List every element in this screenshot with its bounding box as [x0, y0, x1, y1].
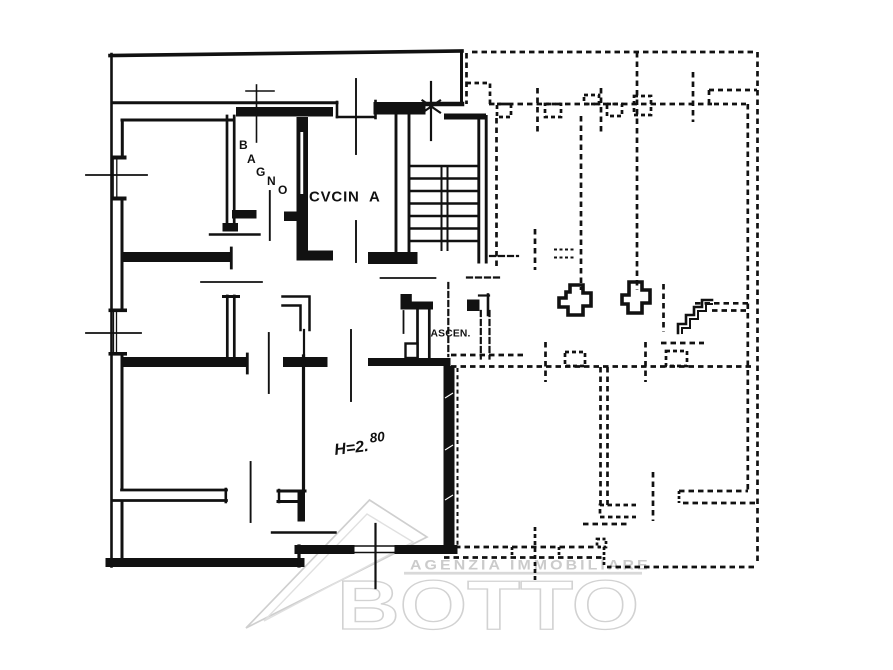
interior wall outer line — [112, 101, 337, 104]
window sill 2a — [109, 309, 128, 313]
stairwell right wall — [479, 117, 486, 263]
entrance dashed box — [467, 83, 491, 104]
elevator cap nub — [401, 294, 412, 302]
wall to right corner — [425, 102, 462, 107]
window tick 1 — [86, 174, 147, 176]
bump 5 up — [634, 96, 651, 115]
cross x545 row — [544, 342, 547, 382]
dashes y524 — [583, 523, 628, 526]
room2 right wall — [227, 296, 234, 362]
dashes y303 — [695, 302, 748, 305]
hook bottom — [600, 505, 636, 517]
right wall bottom double a — [679, 490, 748, 493]
bottom wall left — [110, 558, 300, 567]
window glazing left 2 — [114, 312, 117, 352]
dip vertical a — [336, 102, 339, 117]
stair arrow X — [423, 101, 441, 113]
bottom wall right seg B — [399, 545, 453, 554]
corridor wall cap — [230, 248, 233, 268]
elevator stem — [418, 310, 430, 359]
svg-text:N: N — [267, 174, 276, 188]
dashed right boundary — [756, 52, 759, 563]
dashed v left of ascen — [447, 283, 449, 356]
interior wall inner line room1 — [122, 119, 232, 122]
dashed top wall row — [489, 103, 712, 106]
window sill 1a — [111, 156, 127, 160]
cucina left wall — [297, 117, 309, 260]
agenzia underline — [404, 572, 642, 575]
bottom wall step — [297, 546, 300, 566]
corridor wall y362 seg1 — [121, 357, 248, 367]
bagno door line — [269, 191, 271, 240]
room3 wall cap — [225, 489, 228, 502]
corridor vertical wall thin top — [303, 330, 305, 356]
right outer wall top — [460, 51, 463, 104]
dashed line beside heavy wall — [457, 368, 459, 545]
row bump 2 — [666, 351, 687, 366]
elevator cap — [401, 302, 434, 310]
room3 wall outline top — [122, 489, 227, 492]
c-cap — [678, 491, 681, 503]
dashed bottom right — [607, 566, 754, 569]
window glazing left 1 — [113, 159, 117, 197]
corridor wall y362 cap — [246, 354, 249, 373]
bracket left cap — [278, 490, 281, 502]
cross x645 row — [644, 342, 647, 382]
bracket bottom line — [278, 500, 297, 503]
jog c — [603, 547, 606, 566]
right hook vertical — [487, 295, 490, 316]
logo triangle outer — [246, 500, 427, 628]
divider bottom cap — [223, 223, 239, 232]
vertical x637 — [636, 52, 639, 290]
stairwell foot — [368, 252, 418, 264]
dashes y310 — [712, 309, 748, 312]
corner hook wall — [283, 297, 310, 331]
stringer — [442, 166, 448, 250]
bagno nub on cucina wall — [284, 212, 297, 222]
svg-text:ASCEN.: ASCEN. — [431, 329, 471, 340]
bagno window tick — [246, 90, 274, 92]
double vertical x607 — [606, 367, 609, 505]
dashed v shaft a — [480, 311, 482, 359]
wire top outer wall — [110, 51, 462, 56]
zigzag stair neighbour upper — [678, 300, 712, 333]
dashed vertical right of stairwell — [495, 118, 498, 268]
cucina wall corner to right — [297, 251, 334, 261]
bagno bottom thin line — [210, 233, 260, 235]
thin line y532 — [272, 531, 336, 533]
corridor wall y254 — [121, 252, 231, 262]
jog a — [511, 547, 514, 557]
bottom double wall upper — [455, 546, 600, 549]
H=2.80 — [333, 429, 388, 459]
door header thin — [201, 281, 262, 283]
corridor wall y362 seg2 — [283, 357, 328, 367]
hatched heavy wall — [444, 366, 455, 553]
bracket top line — [278, 490, 305, 493]
bagno top thick band — [236, 107, 333, 117]
divider nub — [232, 210, 257, 219]
elevator door box — [406, 344, 418, 359]
bump 2 — [545, 104, 561, 117]
stair arrow line — [430, 82, 432, 140]
vertical x535 mid — [534, 229, 537, 270]
vertical x663 — [662, 284, 665, 332]
bottom wall window thin lines — [350, 546, 399, 553]
agenzia text — [410, 559, 651, 574]
svg-text:A: A — [369, 189, 380, 206]
dashed v shaft b — [488, 311, 490, 359]
svg-text:CVCIN: CVCIN — [309, 189, 360, 206]
double vertical x600 — [599, 367, 602, 505]
svg-text:80: 80 — [369, 429, 386, 446]
dashed top boundary — [472, 51, 757, 54]
botto text — [337, 566, 639, 644]
room2 wall cap — [224, 295, 239, 298]
vertical x601 — [600, 88, 603, 133]
dashed right inner — [746, 104, 749, 491]
svg-text:G: G — [256, 165, 265, 179]
cucina left wall white streak — [300, 132, 303, 194]
bump up near 600 — [597, 539, 606, 547]
blob fixture 2 — [622, 282, 650, 313]
bump 1 — [497, 104, 511, 117]
bottom double wall lower — [444, 556, 604, 559]
corridor vertical wall — [302, 356, 305, 491]
door line b — [350, 330, 352, 401]
room1-bagno divider wall — [227, 116, 234, 227]
stairwell left wall — [396, 114, 409, 254]
bottom window cross — [374, 524, 376, 588]
elevator left jamb — [403, 311, 405, 333]
cucina door line bottom — [355, 221, 357, 262]
row bump 1 — [565, 352, 585, 366]
window sill 1b — [111, 197, 127, 201]
dashed beside right top wall — [465, 53, 468, 104]
right hook horizontal — [479, 294, 489, 296]
vertical x537 — [536, 88, 539, 133]
svg-text:A: A — [247, 152, 256, 166]
svg-text:BOTTO: BOTTO — [337, 566, 639, 644]
equal ticks — [554, 250, 576, 258]
vertical x693 — [692, 72, 695, 122]
window sill 2b — [109, 352, 128, 356]
door line c — [250, 462, 252, 522]
dashes right of foot — [490, 255, 518, 257]
landing bottom wall — [368, 358, 451, 366]
window tick 2 — [86, 332, 141, 334]
bracket vertical block — [298, 490, 306, 522]
door line a — [268, 333, 270, 393]
landing row upper — [451, 354, 524, 357]
right hook bar — [467, 300, 480, 312]
wall seg y116 — [444, 114, 486, 120]
stair top cap — [374, 102, 426, 115]
vertical x581 — [580, 116, 583, 290]
wire left wall inner line — [121, 120, 124, 557]
treads — [411, 166, 477, 241]
right wall bottom double b — [683, 502, 756, 505]
vertical x653 — [652, 472, 655, 521]
room3 wall outline bottom — [112, 499, 227, 502]
jog b — [558, 547, 561, 557]
hatch white slashes — [445, 393, 453, 500]
bump 4 — [607, 104, 622, 116]
bottom wall right seg A — [299, 545, 350, 554]
window cross x535 — [534, 527, 537, 582]
double seg top right y90 — [709, 90, 757, 104]
dip vertical b — [374, 101, 377, 118]
svg-text:B: B — [239, 138, 248, 152]
logo triangle inner — [264, 514, 413, 621]
cucina door line top — [355, 79, 357, 154]
dashes y343 — [661, 342, 704, 345]
svg-text:O: O — [278, 183, 287, 197]
dip line — [337, 116, 375, 119]
landing row lower long — [451, 365, 755, 368]
bagno window vertical — [256, 85, 258, 142]
landing door header — [381, 277, 436, 279]
landing dashes right — [467, 276, 503, 278]
wire left outer wall — [110, 54, 113, 567]
bump 3 up — [584, 95, 599, 104]
zigzag stair neighbour lower — [682, 304, 712, 333]
blob fixture 1 — [559, 285, 591, 315]
